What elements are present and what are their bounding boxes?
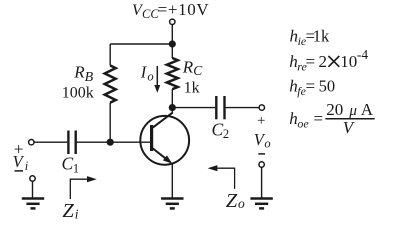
svg-text:A: A bbox=[361, 100, 374, 119]
svg-text:i: i bbox=[25, 159, 29, 173]
svg-text:1k: 1k bbox=[184, 80, 200, 97]
svg-text:1k: 1k bbox=[313, 27, 330, 46]
svg-text:o: o bbox=[264, 137, 270, 151]
svg-text:=: = bbox=[306, 52, 316, 71]
svg-text:R: R bbox=[73, 63, 85, 82]
svg-text:Z: Z bbox=[62, 200, 74, 222]
svg-text:+: + bbox=[257, 113, 265, 129]
svg-text:Z: Z bbox=[226, 190, 238, 212]
svg-text:=: = bbox=[314, 109, 324, 128]
svg-text:2: 2 bbox=[223, 127, 229, 141]
svg-text:o: o bbox=[147, 69, 153, 83]
svg-text:=+10V: =+10V bbox=[158, 0, 210, 19]
svg-text:μ: μ bbox=[348, 103, 357, 119]
svg-text:10: 10 bbox=[340, 52, 357, 71]
svg-text:1: 1 bbox=[73, 161, 79, 175]
svg-text:2: 2 bbox=[319, 52, 328, 71]
svg-text:50: 50 bbox=[319, 76, 336, 95]
svg-text:=: = bbox=[306, 76, 316, 95]
svg-text:oe: oe bbox=[297, 117, 309, 131]
svg-text:C: C bbox=[193, 63, 203, 78]
svg-text:o: o bbox=[238, 196, 245, 211]
svg-text:C: C bbox=[212, 119, 224, 139]
svg-text:C: C bbox=[62, 154, 74, 174]
svg-text:20: 20 bbox=[326, 100, 343, 119]
svg-text:i: i bbox=[75, 206, 79, 221]
svg-text:100k: 100k bbox=[62, 85, 94, 102]
svg-text:R: R bbox=[182, 57, 194, 76]
svg-text:-4: -4 bbox=[357, 47, 368, 62]
svg-text:B: B bbox=[85, 70, 94, 85]
